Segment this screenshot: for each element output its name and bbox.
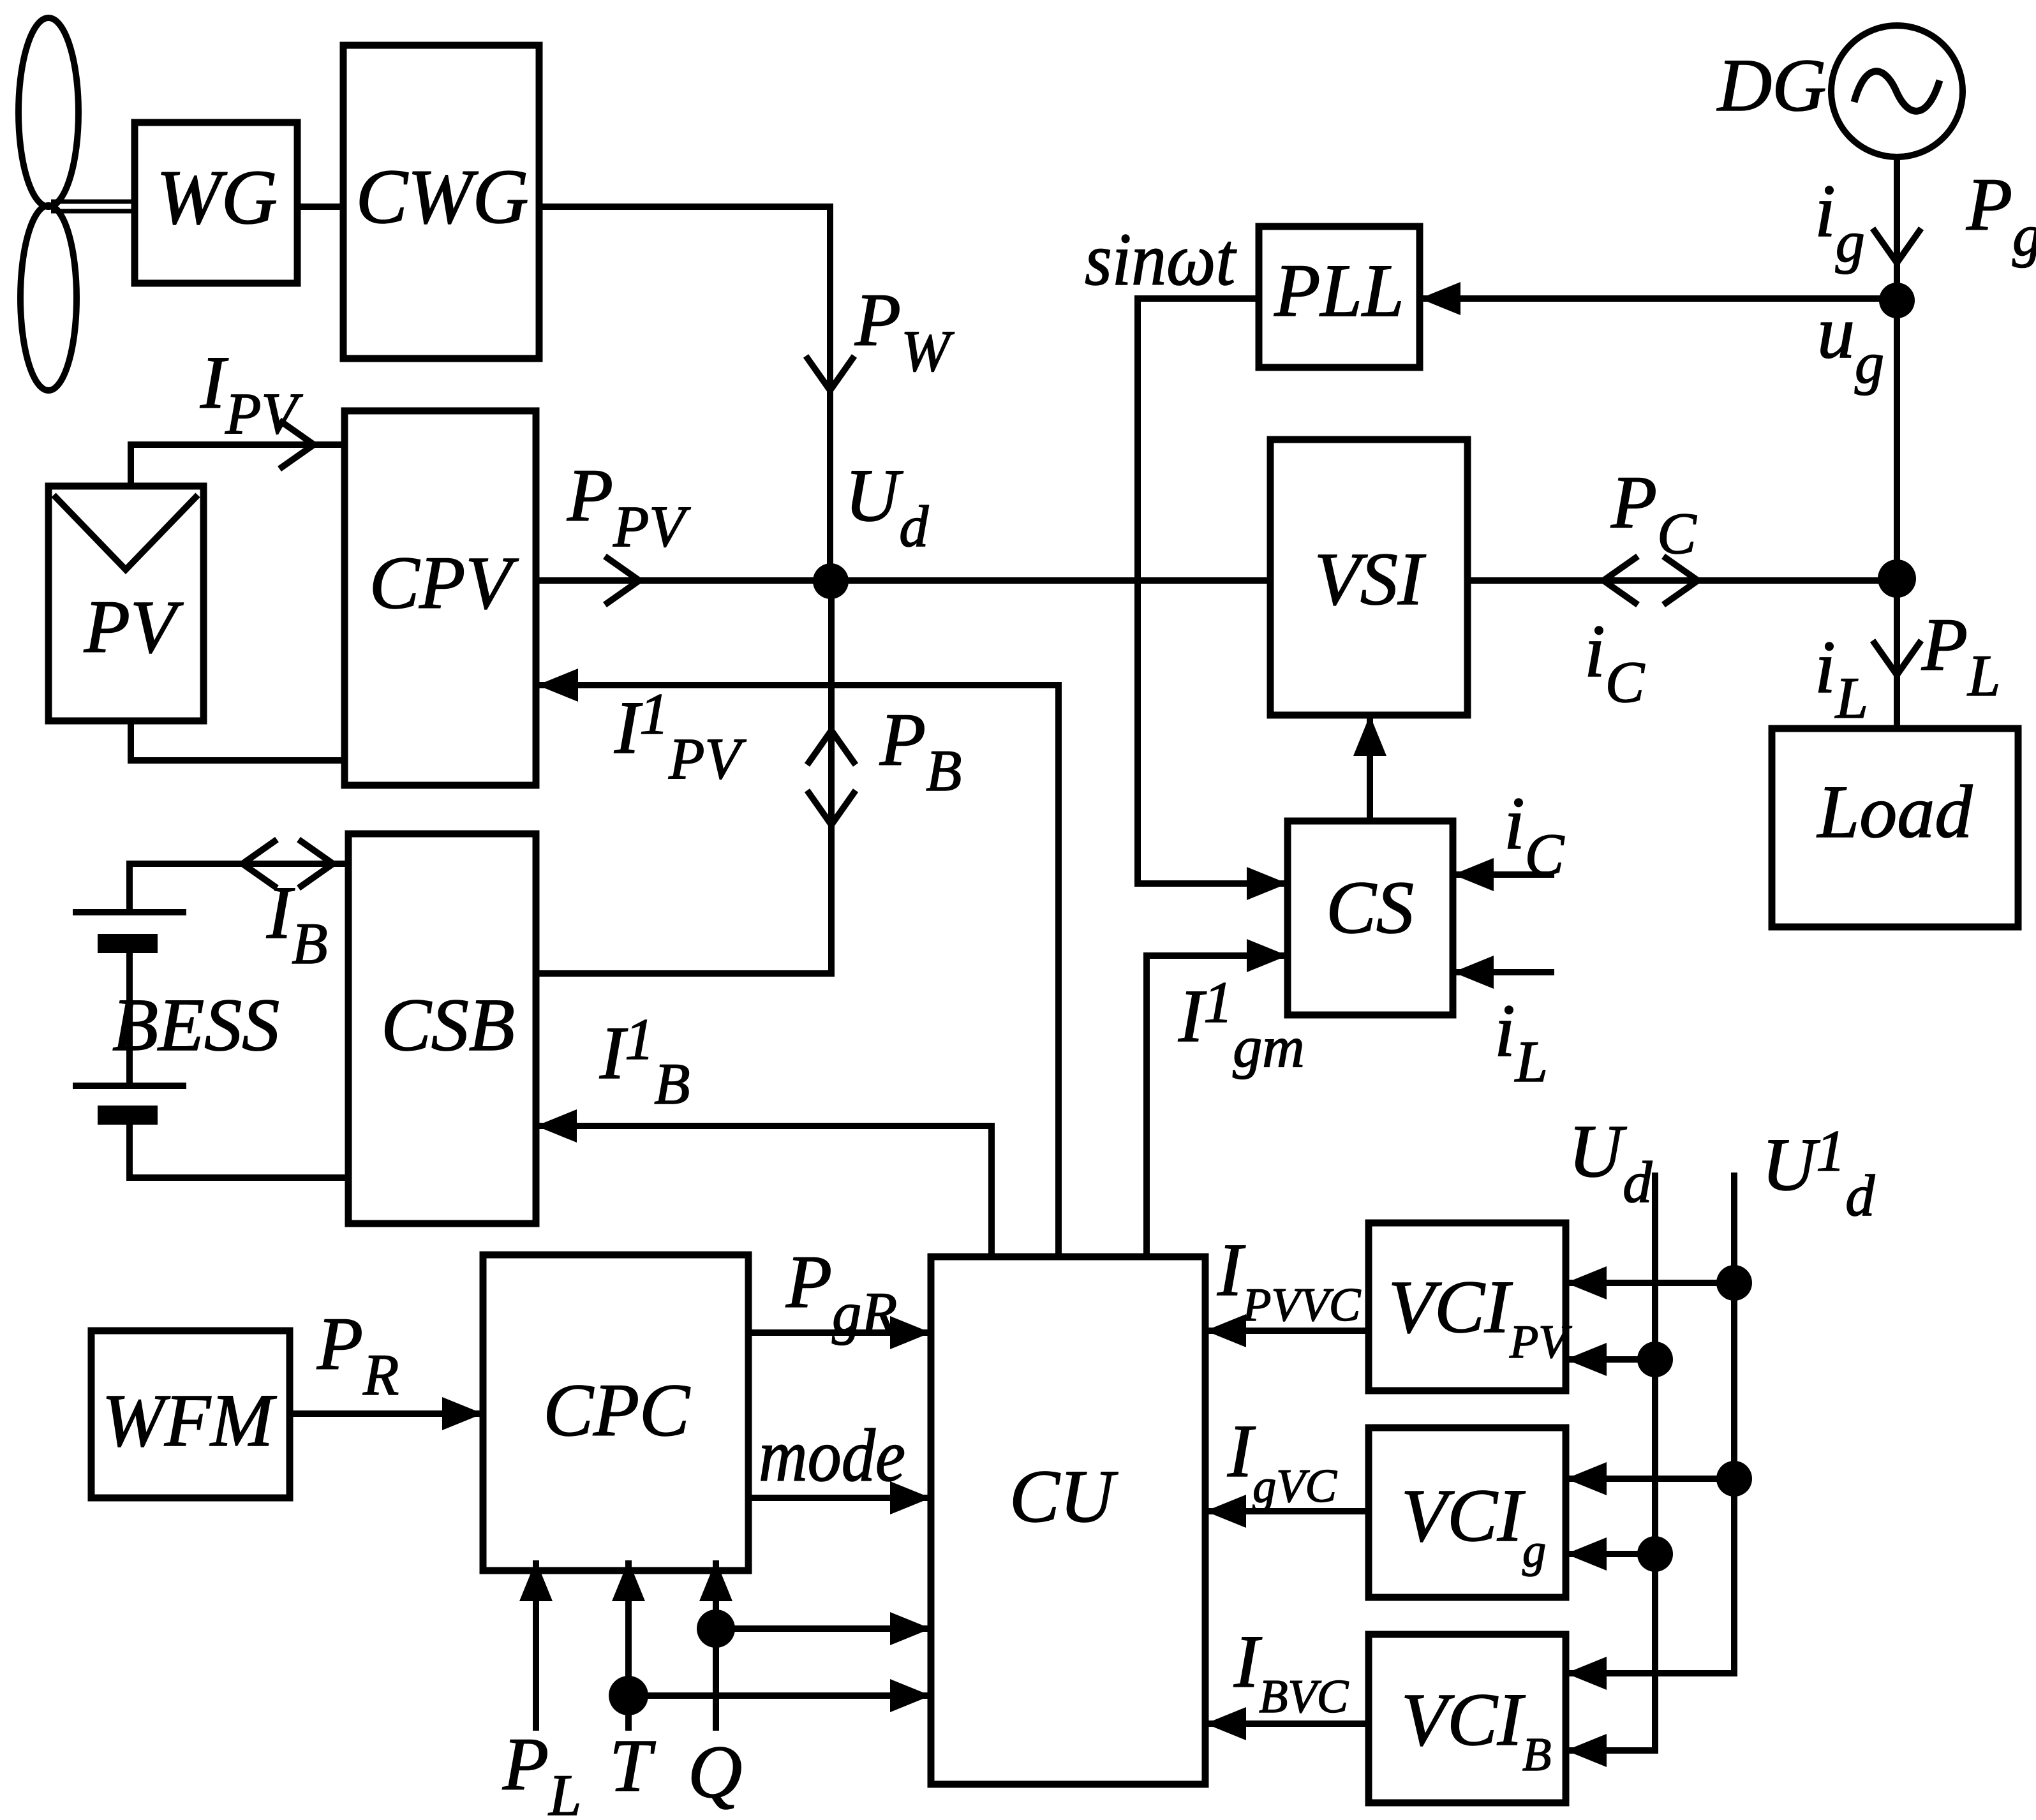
svg-text:CPC: CPC [543,1368,690,1452]
svg-text:PLL: PLL [1274,249,1404,332]
svg-text:CU: CU [1009,1454,1118,1538]
svg-text:CWG: CWG [355,154,528,240]
svg-text:BESS: BESS [112,983,279,1067]
svg-text:DG: DG [1716,43,1826,127]
svg-text:WFM: WFM [102,1379,277,1462]
svg-text:Load: Load [1817,770,1973,854]
svg-text:PV: PV [84,585,184,669]
svg-text:T: T [609,1724,656,1807]
svg-text:Q: Q [688,1730,742,1814]
svg-text:VSI: VSI [1314,537,1426,621]
svg-text:CS: CS [1326,866,1414,949]
svg-text:CSB: CSB [381,983,515,1067]
svg-text:WG: WG [156,154,278,240]
svg-text:sinωt: sinωt [1085,218,1237,301]
svg-text:CPV: CPV [369,541,519,625]
svg-text:mode: mode [759,1414,905,1497]
